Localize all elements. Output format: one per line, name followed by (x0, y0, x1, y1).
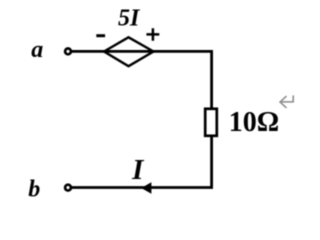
line-break mark (gray return symbol) (280, 95, 293, 108)
svg-text:5I: 5I (118, 5, 141, 31)
node a terminal (65, 49, 71, 55)
node b terminal (65, 185, 71, 191)
wire right vertical: corner down to resistor top (210, 50, 213, 108)
wire bottom: bottom corner to node b (72, 186, 213, 189)
svg-text:I: I (131, 154, 145, 186)
dependent source U1 (diamond) (104, 37, 154, 66)
wire right vertical lower: resistor bottom to bottom corner (210, 136, 213, 189)
polarity minus (96, 34, 105, 37)
current arrow I (141, 182, 151, 194)
svg-text:b: b (28, 177, 40, 203)
svg-text:a: a (31, 37, 43, 63)
polarity plus (146, 28, 159, 41)
svg-text:10Ω: 10Ω (229, 107, 279, 138)
resistor R1 (205, 109, 217, 136)
wire top: node a through source to top-right corner (72, 50, 213, 53)
